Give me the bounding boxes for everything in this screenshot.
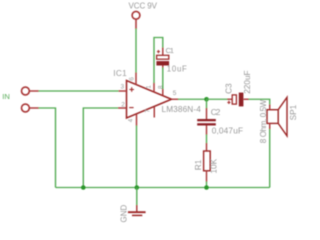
capacitor C3 positive plate: [232, 95, 236, 104]
wire VCC stub: [135, 19, 137, 29]
junction gnd on rail: [135, 185, 140, 190]
capacitor C1 top stub: [162, 48, 164, 56]
capacitor C1 bottom stub: [162, 65, 164, 68]
resistor R1 body: [204, 151, 211, 171]
svg-text:R1: R1: [194, 159, 203, 170]
junction R1 ground: [204, 185, 209, 190]
capacitor C1 positive plate: [157, 55, 169, 59]
ground symbol stub: [136, 205, 138, 212]
wire pin4 to ground rail: [136, 126, 138, 188]
resistor R1 top stub: [206, 143, 208, 151]
resistor R1 bottom stub: [206, 171, 208, 182]
wire gain loop pin1 to C1: [154, 38, 163, 84]
speaker SP1 cone: [278, 97, 287, 136]
capacitor C3 left stub: [227, 98, 232, 100]
svg-text:7: 7: [145, 109, 152, 113]
wire C2 to R1: [206, 135, 208, 144]
wire output node down to C2: [206, 99, 208, 108]
junction pin2 branch on rail: [81, 185, 86, 190]
svg-text:3: 3: [121, 84, 125, 91]
capacitor C2 bottom stub: [206, 126, 208, 136]
junction output node: [204, 97, 209, 102]
svg-text:1: 1: [146, 85, 153, 89]
pin stub IN lower: [30, 107, 39, 109]
wire pin2 to ground rail: [83, 108, 118, 188]
capacitor C3 negative plate: [239, 93, 244, 107]
svg-text:IC1: IC1: [113, 69, 127, 78]
wire IN upper to pin3: [39, 90, 119, 92]
pin 8 stub: [162, 89, 164, 96]
supply symbol VCC: [132, 11, 140, 19]
op-amp plus input marking: [129, 87, 134, 92]
svg-text:10uF: 10uF: [167, 64, 187, 73]
wire C1 to pin8: [162, 68, 164, 90]
svg-text:GND: GND: [120, 205, 129, 223]
wire VCC to pin6: [135, 29, 137, 74]
pin stub IN upper: [30, 90, 39, 92]
svg-text:2: 2: [121, 101, 125, 108]
pin 3 stub: [119, 90, 127, 92]
speaker SP1 top stub: [269, 105, 271, 111]
speaker SP1 bottom stub: [269, 123, 271, 129]
svg-text:VCC 9V: VCC 9V: [129, 2, 158, 11]
capacitor C2 top stub: [206, 108, 208, 119]
svg-text:6: 6: [129, 77, 136, 81]
wire ground rail: [56, 187, 270, 189]
wire speaker to ground rail: [269, 129, 271, 188]
connector IN pin 2 circle: [22, 104, 30, 112]
wire output node to C3: [207, 98, 228, 100]
capacitor C2 upper plate: [197, 119, 216, 121]
pin 2 stub: [118, 107, 127, 109]
ground symbol bars: [128, 211, 146, 213]
capacitor C3 right stub: [244, 98, 249, 100]
op-amp IC1 triangle: [127, 81, 172, 119]
capacitor C3 plus marking: [227, 101, 230, 104]
svg-text:LM386N-4: LM386N-4: [162, 105, 202, 114]
wire rail to gnd symbol: [136, 188, 138, 206]
capacitor C1 negative plate: [156, 61, 169, 65]
op-amp minus input marking: [129, 107, 133, 109]
speaker SP1 body box: [267, 110, 278, 124]
wire IN lower down to ground rail: [39, 108, 56, 188]
wire pin5 to output node: [178, 98, 207, 100]
svg-text:C3: C3: [225, 83, 234, 94]
pin 4 stub: [136, 114, 138, 126]
svg-text:4: 4: [128, 118, 135, 122]
pin 1 stub: [153, 83, 155, 93]
svg-text:0,047uF: 0,047uF: [212, 126, 243, 135]
svg-text:8 Ohm, 0.5W: 8 Ohm, 0.5W: [259, 99, 268, 143]
connector IN pin 1 circle: [22, 87, 30, 95]
svg-text:5: 5: [173, 90, 177, 97]
capacitor C2 lower plate: [197, 123, 216, 125]
wire C3 to speaker: [249, 99, 270, 105]
svg-text:10K: 10K: [210, 158, 219, 173]
svg-text:C1: C1: [166, 46, 174, 55]
capacitor C1 plus marking: [157, 50, 160, 53]
pin 5 stub (output): [172, 98, 179, 100]
svg-text:IN: IN: [2, 92, 10, 101]
pin 6 stub: [135, 73, 137, 86]
wire R1 to ground rail: [206, 182, 208, 188]
pin 7 stub (bypass, unconnected): [153, 107, 155, 118]
svg-text:SP1: SP1: [289, 104, 298, 120]
svg-text:C2: C2: [211, 108, 221, 117]
svg-text:220uF: 220uF: [243, 70, 252, 93]
